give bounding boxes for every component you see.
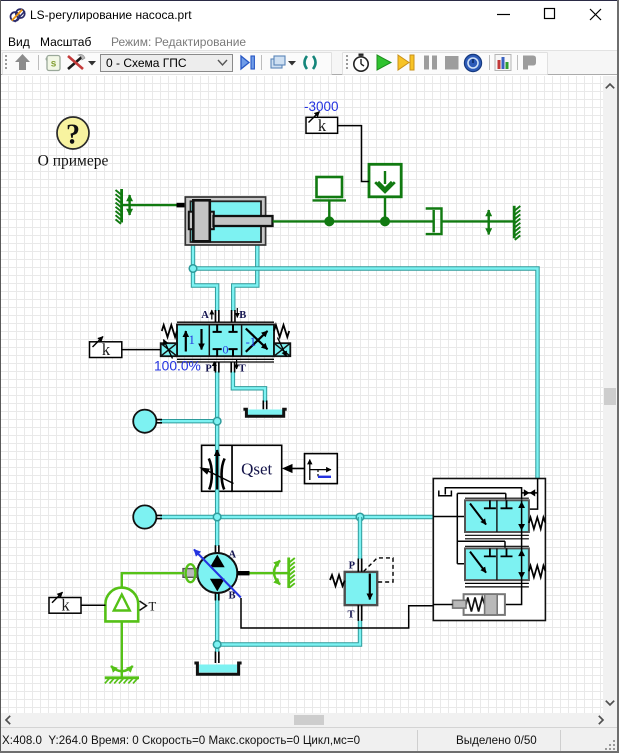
valve ports P,T (double lines) [215,362,234,373]
tank (pump drain) [194,663,241,674]
valve right cell crossed arrows [246,331,268,352]
svg-text:100.0%: 100.0% [154,359,201,374]
svg-text:P: P [205,363,212,374]
junction: mass-shaft [324,216,334,226]
svg-text:О примере: О примере [38,153,109,170]
drain spool line [505,500,522,604]
gauge 1 [133,410,162,433]
signal arrow to Qset [282,464,305,473]
valve 1 rails [465,498,529,539]
relief P port [358,559,361,572]
wire: LS line to regulator [193,269,538,480]
LS regulator frame [433,479,545,621]
svg-text:A: A [229,549,237,560]
gauge 2 [133,505,162,528]
svg-text:T: T [347,610,354,621]
valve left cell arrows [185,331,187,352]
tank T port stub [263,401,266,410]
Qset box [232,445,282,491]
wall (pump mount) [289,558,295,589]
mass block [313,177,347,221]
wire: cylinder right port to valve B [233,244,257,312]
control cylinder [453,594,505,615]
valve 4/3 body [177,325,274,357]
ground (rotational) [105,678,139,684]
force source [369,164,401,221]
wire: cylinder left port to valve A [193,244,217,312]
valve spring left [162,325,177,337]
svg-text:B: B [239,310,246,321]
svg-text:A: A [201,310,209,321]
LS orifice [524,489,535,496]
shaft wire: rod to damper [273,220,434,222]
svg-text:k: k [102,340,111,359]
svg-text:1: 1 [189,333,195,347]
valve 2 spring [529,566,546,578]
slider arrow (left) [128,195,130,215]
solenoid right [274,338,290,357]
variable displacement pump [197,553,237,593]
wire: valve T to tank [233,372,265,403]
mount stub [177,203,187,208]
shaft rotation ellipse [186,564,196,582]
relief valve [345,572,378,605]
signal source block [305,454,338,484]
relief pilot (dashed) [364,558,393,582]
drain line [445,488,521,501]
shaft wire: pump to wall [250,572,288,574]
svg-text:0 - Схема ГПС: 0 - Схема ГПС [106,56,187,70]
internal drain tank [439,491,452,496]
damper [426,209,442,235]
LS orifice line [522,479,538,510]
motor ground link [121,621,123,677]
wire: gauge 2 and pump pressure to regulator [160,515,433,519]
LS valve 2 [465,548,529,580]
wire: relief T to pump B node [217,621,360,645]
help icon [57,117,89,151]
svg-text:-1: -1 [246,335,256,349]
pilot manifold [433,493,506,563]
shaft wire: damper to wall [442,220,515,222]
wire: main pressure line valve P to pump A [215,372,219,547]
svg-text:Qset: Qset [241,459,272,478]
pump shaft rod [183,569,197,578]
wall (left mount) [116,189,122,224]
svg-text:?: ? [66,120,80,151]
pump swash arrow (blue) [194,550,241,598]
tank (valve T) [243,409,286,416]
relief T port [358,605,361,621]
throttle symbol [199,450,233,490]
svg-text:k: k [318,116,327,135]
junction: gauge 2 [213,513,221,521]
svg-text:T: T [149,600,157,614]
port label T [236,360,238,370]
svg-text:B: B [229,590,236,601]
svg-text:T: T [239,363,246,374]
k3 gain block [49,592,81,615]
wire: relief P branch [358,517,362,559]
solenoid left [161,340,177,359]
signal wire: k2 to solenoid [122,349,161,351]
wire: wall to cylinder [123,204,177,206]
rotational velocity source (motor) [105,588,138,622]
throttle box (under wire) [202,445,233,491]
motor output marker [140,601,147,610]
signal wire: k1 to force source [338,126,369,182]
svg-text:s: s [51,59,57,70]
port label B [236,308,238,318]
hydraulic cylinder [185,197,272,245]
svg-text:0: 0 [223,343,229,357]
k2 gain block [90,337,122,360]
wire: pump B down to tank [215,592,219,652]
LS valve 1 [465,500,529,532]
valve 1 spring [529,517,546,529]
pump A port stub [215,545,218,553]
wall (right mount) [514,206,520,240]
pump right stub [237,571,249,575]
valve spring right [274,325,289,337]
junction: LS tap [189,265,197,273]
junction: gauge 1 [213,417,221,425]
link: pump control to regulator [241,598,433,628]
junction: relief branch [356,513,364,521]
valve rails [177,322,274,362]
valve 2 rails [465,546,529,587]
link: regulator to control cylinder [433,604,452,606]
pump B port stub [215,593,218,601]
relief spring [330,575,345,586]
slider arrow (right) [488,210,490,235]
rotation arrow (right wall) [274,561,280,585]
signal wire: k3 to motor [81,604,105,606]
tank port stub [215,652,218,664]
junction: pump B node [213,641,221,649]
rotation arrow (ground) [111,666,133,671]
valve ports A,B (double lines) [215,310,235,322]
svg-text:P: P [349,561,356,572]
wire: gauge 1 [160,419,217,423]
shaft wire: pump to motor [122,573,184,588]
svg-text:k: k [61,596,70,615]
svg-text:-3000: -3000 [304,99,339,114]
junction: force-shaft [380,216,390,226]
valve center cell blocked ports [213,325,238,357]
k1 gain block [306,112,338,135]
